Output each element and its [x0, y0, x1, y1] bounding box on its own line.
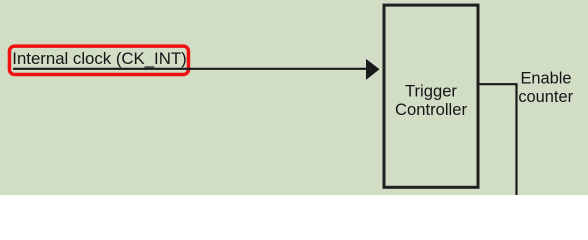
- svg-text:Enable: Enable: [520, 70, 571, 88]
- svg-text:Controller: Controller: [395, 100, 467, 119]
- svg-text:counter: counter: [518, 88, 573, 106]
- svg-text:Trigger: Trigger: [405, 81, 457, 100]
- svg-text:Internal clock (CK_INT): Internal clock (CK_INT): [12, 49, 186, 68]
